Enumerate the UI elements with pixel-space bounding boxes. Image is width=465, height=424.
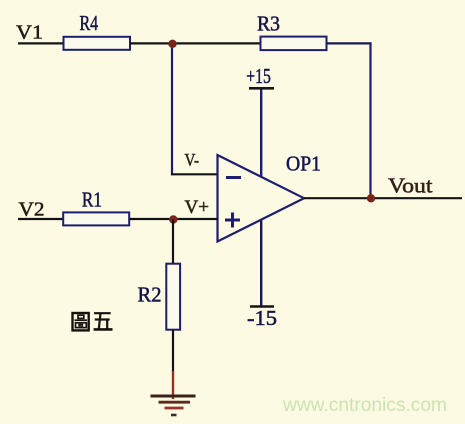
power rail bar +15	[249, 87, 274, 90]
svg-text:OP1: OP1	[286, 152, 321, 176]
ground bar 2	[159, 401, 191, 404]
wire op-amp to -15 supply	[260, 218, 262, 307]
wire V1 input to R4	[18, 42, 64, 44]
wire into V- input	[171, 173, 218, 175]
wire node A down toward V-	[171, 43, 173, 175]
ground bar 1	[151, 395, 196, 398]
svg-text:V+: V+	[185, 198, 210, 218]
svg-text:www.cntronics.com: www.cntronics.com	[282, 394, 447, 416]
svg-text:R2: R2	[138, 282, 162, 306]
ground tip mark	[171, 414, 177, 417]
wire feedback vertical down to output node	[369, 42, 371, 198]
power rail bar -15	[250, 305, 274, 308]
wire ground lead (red part)	[172, 371, 174, 399]
wire V2 input to R1	[18, 218, 63, 220]
svg-text:R3: R3	[257, 11, 280, 35]
wire node B down to R2	[172, 220, 174, 265]
svg-text:V1: V1	[16, 22, 43, 44]
svg-text:+15: +15	[246, 64, 270, 88]
svg-text:R4: R4	[80, 11, 99, 35]
svg-text:R1: R1	[82, 187, 102, 211]
figure caption glyph tu (drawn)	[73, 313, 89, 330]
ground bar 3	[165, 407, 184, 410]
resistor R4 body	[64, 37, 131, 50]
figure caption glyph wu (drawn)	[94, 313, 113, 329]
wire R2 down to ground (black part)	[172, 330, 174, 372]
svg-text:Vout: Vout	[388, 174, 433, 198]
junction node A	[168, 40, 176, 48]
wire +15 supply to op-amp	[260, 88, 262, 180]
wire op-amp output to right edge	[304, 197, 462, 199]
svg-text:V2: V2	[19, 199, 45, 221]
resistor R2 body	[166, 264, 180, 330]
op-amp U1 triangle	[218, 155, 305, 242]
resistor R3 body	[261, 37, 327, 51]
wire R4 to node A and R3	[130, 42, 261, 44]
wire R3 to feedback corner	[327, 42, 372, 44]
junction node B	[169, 215, 177, 223]
wire R1 to node B and V+ input	[129, 218, 218, 220]
resistor R1 body	[63, 212, 129, 225]
op-amp plus input marker	[225, 213, 240, 228]
svg-text:V-: V-	[185, 150, 200, 170]
op-amp minus input marker	[226, 176, 241, 179]
svg-text:-15: -15	[247, 306, 277, 330]
output junction node	[367, 194, 375, 202]
